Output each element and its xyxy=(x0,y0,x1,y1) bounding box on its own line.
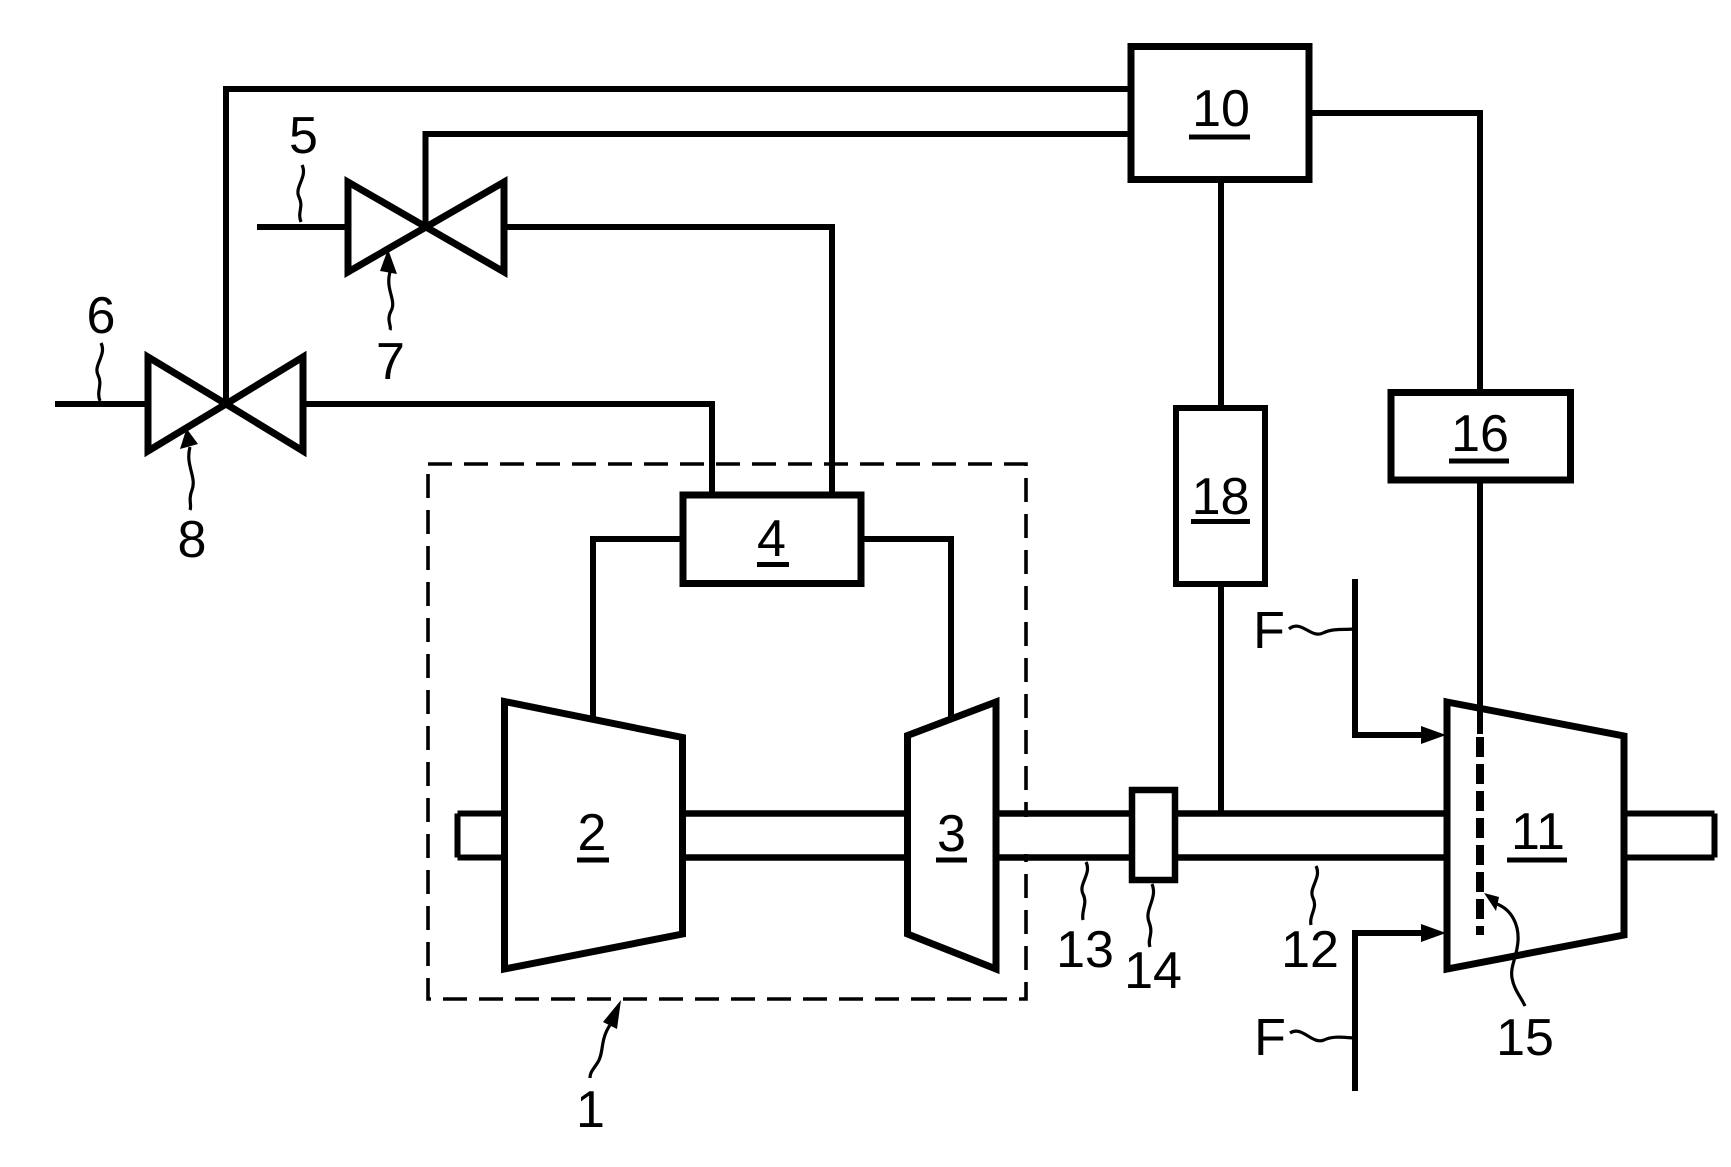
arrowhead F lower into turbine 11 xyxy=(1421,924,1446,942)
wire controller 10 right to box 16 xyxy=(1309,113,1480,396)
leader arrow of label 7 xyxy=(380,249,397,274)
wire from valve 8 top up and right to controller 10 xyxy=(226,89,1131,404)
svg-text:13: 13 xyxy=(1056,921,1114,979)
wire from valve 7 top up and right to controller 10 xyxy=(426,134,1132,227)
svg-text:15: 15 xyxy=(1496,1009,1554,1067)
controller box 10 xyxy=(1131,47,1309,180)
wire valve 8 right to box 4 xyxy=(303,404,712,510)
valve 8 right triangle xyxy=(226,357,303,451)
valve 7 left triangle xyxy=(348,182,426,272)
wire valve 7 right to box 4 xyxy=(504,227,832,510)
svg-text:3: 3 xyxy=(937,805,966,863)
wire F lower feed with vertical riser xyxy=(1355,933,1424,1091)
svg-text:14: 14 xyxy=(1124,942,1182,1000)
compressor 2 trapezoid xyxy=(505,702,683,970)
shaft left stub on compressor 2 xyxy=(458,814,506,858)
leader squiggle of label 14 xyxy=(1148,884,1154,947)
svg-text:1: 1 xyxy=(576,1081,605,1139)
shaft right stub on power turbine 11 xyxy=(1624,814,1715,858)
leader squiggle of label 12 xyxy=(1311,866,1318,925)
svg-text:2: 2 xyxy=(578,804,607,862)
wire controller 10 bottom to box 18 xyxy=(1218,180,1224,412)
valve 8 left triangle xyxy=(148,357,226,451)
wire box 4 left branch to compressor 2 xyxy=(593,539,687,726)
coupling box 14 on shaft xyxy=(1132,790,1175,880)
leader arrow of label 8 xyxy=(180,429,198,450)
wire box 18 bottom to shaft xyxy=(1218,584,1224,814)
svg-text:16: 16 xyxy=(1451,405,1509,463)
leader squiggle of label 13 xyxy=(1082,862,1088,920)
leader squiggle of label F upper xyxy=(1289,626,1353,634)
svg-text:11: 11 xyxy=(1511,803,1565,861)
turbine 3 trapezoid xyxy=(908,702,997,969)
sensor box 18 xyxy=(1176,408,1265,584)
wire valve 8 left stub xyxy=(55,401,148,407)
svg-text:F: F xyxy=(1253,602,1285,660)
svg-text:4: 4 xyxy=(757,510,786,568)
wire valve 7 left stub xyxy=(257,224,348,230)
svg-text:18: 18 xyxy=(1192,468,1250,526)
svg-text:6: 6 xyxy=(87,287,116,345)
svg-text:F: F xyxy=(1254,1009,1286,1067)
wire box 4 right branch to turbine 3 xyxy=(860,539,951,726)
leader arrow of label 15 xyxy=(1484,893,1499,911)
svg-text:12: 12 xyxy=(1281,921,1339,979)
dashed vane line 15 inside turbine 11 xyxy=(1476,737,1484,935)
shaft band between compressor 2 and power turbine 11 xyxy=(683,817,1447,854)
dashed boundary box 1 (engine unit) xyxy=(428,464,1026,999)
svg-text:5: 5 xyxy=(289,107,318,165)
leader squiggle of label 5 xyxy=(298,165,304,222)
svg-text:7: 7 xyxy=(376,333,405,391)
box 16 xyxy=(1391,393,1571,481)
combustor box 4 xyxy=(683,495,861,584)
valve 7 right triangle xyxy=(426,182,504,272)
svg-text:8: 8 xyxy=(178,511,207,569)
power turbine 11 trapezoid xyxy=(1447,702,1624,969)
leader squiggle of label 6 xyxy=(97,343,103,401)
wire box 16 bottom into turbine 11 xyxy=(1477,480,1483,734)
leader squiggle of label F lower xyxy=(1290,1031,1355,1041)
wire F upper feed with vertical riser xyxy=(1355,579,1424,735)
leader arrow of label 1 xyxy=(603,1000,621,1029)
svg-text:10: 10 xyxy=(1192,80,1250,138)
arrowhead F upper into turbine 11 xyxy=(1421,726,1446,744)
